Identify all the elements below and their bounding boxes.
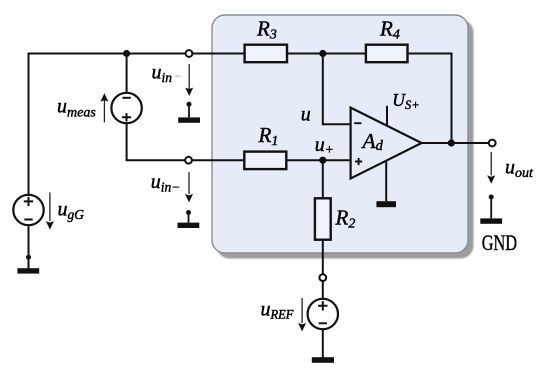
- op-amp ground lead: [385, 161, 387, 201]
- op-amp ground bar: [376, 201, 396, 207]
- terminal u_out: [489, 140, 496, 147]
- wire u_meas bottom lead to lower rail: [127, 123, 185, 160]
- terminal u_in-: [185, 157, 192, 164]
- wire R3 to R4: [287, 53, 366, 55]
- source u_gG minus sign: [24, 219, 32, 221]
- node junction at u_meas top: [123, 50, 130, 57]
- source u_REF minus sign: [319, 322, 327, 324]
- wire ugG source to ground: [28, 225, 30, 268]
- arrow u_REF: [301, 298, 303, 323]
- wire R4 to right corner and down: [408, 54, 452, 144]
- voltage source u_gG circle: [13, 195, 43, 225]
- wire R1 to op-amp + input: [286, 159, 351, 161]
- ground u_REF: [312, 357, 334, 363]
- voltage source u_REF circle: [308, 299, 338, 329]
- source u_gG plus sign: [24, 197, 33, 206]
- svg-text:umeas: umeas: [57, 96, 96, 121]
- op-amp non-inverting input pin marker +: [355, 158, 362, 165]
- arrow u_in+: [188, 64, 190, 89]
- label u_in+ faint plus: [175, 75, 181, 77]
- wire inverting input branch: [323, 54, 352, 125]
- arrow u_out: [490, 152, 492, 175]
- node junction u+: [319, 157, 326, 164]
- terminal u_REF: [319, 274, 326, 281]
- resistor R3: [245, 45, 287, 63]
- wire u_in+ terminal to R3: [193, 53, 245, 55]
- op-amp supply line US+: [386, 106, 388, 127]
- amplifier block background box: [212, 15, 468, 253]
- arrow u_in-: [188, 172, 190, 194]
- wire R2 to uREF terminal: [322, 240, 324, 274]
- node junction at R3/R4: [319, 50, 326, 57]
- svg-text:uin−: uin−: [151, 171, 181, 195]
- wire top rail from left corner to u_in+ terminal: [29, 54, 186, 195]
- svg-text:uin: uin: [152, 61, 173, 85]
- svg-text:u: u: [301, 103, 311, 125]
- arrow u_meas (up): [103, 100, 105, 122]
- ground u_in+: [187, 102, 192, 107]
- svg-text:uout: uout: [505, 156, 534, 181]
- source u_meas minus sign: [122, 97, 130, 99]
- svg-text:ugG: ugG: [58, 198, 85, 222]
- wire u_in- terminal to R1: [192, 159, 244, 161]
- ground u_gG: [26, 255, 31, 260]
- wire uREF source to ground: [322, 329, 324, 357]
- resistor R1: [244, 152, 286, 170]
- svg-text:uREF: uREF: [261, 298, 294, 321]
- wire u_meas top lead: [126, 54, 128, 94]
- resistor R4: [366, 45, 408, 63]
- terminal u_in+: [186, 50, 193, 57]
- amplifier block shadow: [217, 20, 474, 259]
- op-amp A_d triangle: [351, 108, 422, 179]
- ground GND (output): [489, 195, 494, 200]
- resistor R2: [315, 198, 331, 239]
- node junction output: [448, 139, 455, 146]
- source u_meas plus sign: [122, 113, 131, 121]
- ground u_in-: [186, 210, 191, 215]
- wire op-amp output: [422, 142, 489, 144]
- voltage source u_meas circle: [111, 93, 141, 123]
- arrow u_gG: [49, 192, 51, 221]
- op-amp inverting input pin marker -: [354, 122, 361, 124]
- wire uREF terminal to source: [322, 281, 324, 299]
- wire u+ down to R2: [322, 160, 324, 198]
- svg-text:GND: GND: [482, 232, 517, 256]
- source u_REF plus sign: [318, 301, 327, 310]
